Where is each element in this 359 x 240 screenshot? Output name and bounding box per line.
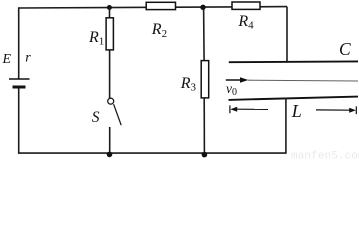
capacitor C bottom plate bbox=[229, 97, 359, 100]
wire right vertical down to capacitor top plate bbox=[286, 7, 288, 62]
node junction dot bottom of switch branch bbox=[107, 152, 113, 158]
trajectory line through capacitor bbox=[248, 79, 358, 82]
dimension line right arrowhead bbox=[349, 108, 356, 113]
dimension line left arrowhead bbox=[230, 107, 237, 112]
dimension line right terminal bar bbox=[355, 106, 357, 114]
wire R3 top lead bbox=[203, 7, 206, 61]
dimension line left shaft bbox=[235, 108, 268, 110]
svg-text:r: r bbox=[25, 51, 31, 66]
resistor R2 (horizontal box) bbox=[146, 2, 175, 9]
node junction dot top of R1 branch bbox=[107, 5, 112, 10]
arrow v0 velocity vector head bbox=[240, 77, 248, 82]
wire switch bottom lead bbox=[109, 127, 111, 154]
node junction dot bottom of R3 branch bbox=[202, 152, 208, 158]
wire bottom bus bbox=[18, 152, 287, 154]
battery E short thick plate (negative) bbox=[13, 86, 26, 89]
svg-text:E: E bbox=[2, 52, 12, 67]
dimension line right shaft bbox=[316, 109, 351, 111]
wire left vertical (battery top lead) bbox=[18, 7, 20, 79]
wire bottom plate lead down to bottom bus bbox=[285, 98, 287, 154]
switch S blade (open) bbox=[114, 104, 122, 125]
svg-text:L: L bbox=[291, 101, 302, 121]
battery E long plate (positive) bbox=[9, 78, 30, 80]
dimension line left terminal bar bbox=[229, 105, 231, 113]
svg-text:C: C bbox=[339, 39, 351, 59]
resistor R4 (horizontal box) bbox=[232, 2, 260, 9]
node junction dot top of R3 branch bbox=[200, 5, 205, 10]
switch S pivot circle bbox=[108, 98, 114, 104]
wire R1 bottom lead to switch bbox=[109, 50, 111, 98]
resistor R3 (vertical box) bbox=[201, 61, 209, 98]
svg-text:manfen5.com: manfen5.com bbox=[291, 151, 359, 162]
svg-text:S: S bbox=[92, 109, 100, 126]
wire R1 top lead bbox=[109, 8, 111, 19]
wire R3 bottom lead bbox=[203, 98, 205, 153]
wire top bus from battery to top-right corner bbox=[19, 7, 287, 8]
resistor R1 (vertical box) bbox=[106, 18, 113, 50]
wire left vertical (battery bottom lead) bbox=[18, 87, 20, 154]
arrow v0 velocity vector shaft bbox=[226, 79, 242, 81]
capacitor C top plate bbox=[229, 60, 358, 63]
